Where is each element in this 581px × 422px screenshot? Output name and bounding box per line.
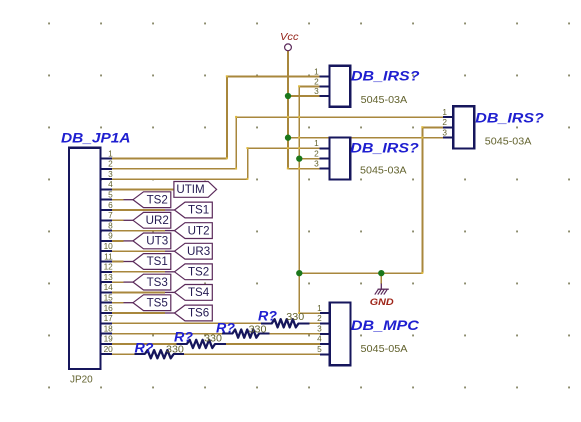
svg-text:DB_IRS?: DB_IRS? [350, 140, 419, 155]
wire resistor to U4 pin 4 [226, 343, 320, 345]
wire net UT2 [112, 230, 165, 232]
svg-text:15: 15 [104, 293, 114, 303]
net label TS2 [165, 264, 212, 280]
wire JP20 pin 20 to resistor [112, 353, 135, 355]
connector U1 DB_IRS? (top) [314, 66, 419, 107]
svg-text:2: 2 [314, 76, 319, 86]
svg-text:UR2: UR2 [146, 214, 169, 227]
net label TS1 [165, 202, 212, 218]
svg-text:10: 10 [104, 241, 114, 251]
wire JP20 pin 1 vertical [226, 77, 228, 159]
svg-text:R?: R? [174, 330, 193, 345]
svg-text:3: 3 [317, 323, 322, 333]
wire net TS2 [112, 199, 124, 201]
wire JP20 pin 18 to resistor [112, 333, 223, 335]
junction GND run [296, 270, 302, 276]
net label TS2 [124, 192, 171, 208]
wire JP20 pin 17 to resistor [112, 322, 262, 324]
net label TS1 [124, 254, 171, 270]
svg-text:Vcc: Vcc [280, 32, 299, 43]
power Vcc [280, 32, 299, 51]
junction VCC/U3.3 [285, 135, 291, 141]
svg-text:14: 14 [104, 282, 114, 292]
svg-text:1: 1 [314, 138, 319, 148]
svg-text:DB_JP1A: DB_JP1A [61, 130, 131, 145]
ground GND [370, 284, 394, 308]
wire net TS3 [112, 281, 124, 283]
wire JP20 pin 2 vertical [235, 117, 237, 169]
svg-text:3: 3 [314, 86, 319, 96]
svg-text:5: 5 [317, 344, 322, 354]
wire JP20 pin 2 horizontal [112, 168, 236, 170]
svg-text:JP20: JP20 [70, 375, 93, 386]
svg-text:5045-03A: 5045-03A [485, 136, 532, 147]
net label UT2 [165, 223, 212, 239]
resistor R? #2 330 [216, 320, 270, 337]
net label TS5 [124, 295, 171, 311]
wire VCC to U2 pin 3 [288, 168, 320, 170]
net label TS6 [165, 305, 212, 321]
connector U2 DB_IRS? (middle) [314, 138, 419, 180]
resistor R? #4 330 [134, 340, 184, 358]
svg-text:1: 1 [442, 107, 447, 117]
svg-text:R?: R? [135, 340, 154, 355]
net label TS3 [124, 274, 171, 290]
wire GND to U2 pin 2 [299, 158, 319, 160]
wire to U3 pin 1 [236, 116, 443, 118]
svg-text:4: 4 [108, 179, 113, 189]
wire GND stub to symbol [380, 273, 382, 284]
wire GND right vertical [422, 127, 424, 273]
wire GND to U4 pin 1 [299, 312, 320, 314]
svg-text:4: 4 [317, 334, 322, 344]
wire net UR3 [112, 250, 165, 252]
wire corner highlights [226, 75, 423, 314]
svg-text:5045-03A: 5045-03A [360, 165, 407, 176]
svg-text:TS4: TS4 [188, 286, 210, 299]
svg-text:DB_IRS?: DB_IRS? [475, 111, 544, 126]
svg-text:17: 17 [104, 313, 114, 323]
svg-text:16: 16 [104, 303, 114, 313]
wire VCC to U1 pin 3 [288, 95, 320, 97]
svg-text:UT3: UT3 [146, 235, 168, 248]
svg-text:330: 330 [286, 312, 304, 323]
wire JP20 pin 3 vertical [247, 148, 249, 179]
svg-text:3: 3 [314, 158, 319, 168]
resistor R? #3 330 [174, 330, 226, 348]
resistor R? #1 330 [258, 308, 310, 327]
svg-text:330: 330 [166, 344, 184, 355]
svg-text:TS6: TS6 [188, 307, 209, 320]
svg-text:13: 13 [104, 272, 114, 282]
svg-text:1: 1 [108, 148, 113, 158]
svg-text:3: 3 [442, 128, 447, 138]
wire JP20 pin 1 horizontal [112, 158, 227, 160]
net label UR2 [124, 212, 171, 228]
wire JP20 pin 19 to resistor [112, 343, 177, 345]
wire VCC to U3 pin 3 [288, 137, 443, 139]
svg-text:2: 2 [317, 313, 322, 323]
wire GND horizontal run [299, 272, 422, 274]
svg-text:2: 2 [108, 159, 113, 169]
wire net TS1 [112, 261, 124, 263]
svg-text:TS1: TS1 [188, 204, 209, 217]
wire resistor to U4 pin 3 [269, 333, 320, 335]
svg-text:TS2: TS2 [147, 193, 168, 206]
svg-text:11: 11 [104, 251, 113, 261]
net label UR3 [165, 243, 212, 259]
svg-text:9: 9 [108, 231, 113, 241]
svg-text:UT2: UT2 [188, 224, 210, 237]
svg-text:2: 2 [442, 117, 447, 127]
wire net TS1 [112, 209, 165, 211]
wire resistor to U4 pin 5 [183, 353, 319, 355]
net label UT3 [124, 233, 171, 249]
wire net UR2 [112, 219, 124, 221]
connector U3 DB_IRS? (right) [442, 106, 543, 148]
svg-text:R?: R? [258, 308, 277, 323]
svg-text:DB_MPC: DB_MPC [351, 318, 419, 333]
wire net TS6 [112, 312, 165, 314]
wire net UT3 [112, 240, 124, 242]
svg-text:18: 18 [104, 323, 114, 333]
wire GND to U3 pin 2 [423, 126, 444, 128]
wire GND vertical [298, 87, 300, 314]
wire to U1 pin 1 [227, 76, 320, 78]
wire net TS4 [112, 291, 165, 293]
svg-text:TS1: TS1 [147, 255, 168, 268]
wire net TS2 [112, 271, 165, 273]
svg-text:DB_IRS?: DB_IRS? [351, 69, 420, 84]
svg-text:1: 1 [314, 66, 319, 76]
wire to U2 pin 1 [248, 147, 320, 149]
svg-text:6: 6 [108, 200, 113, 210]
svg-text:330: 330 [204, 334, 222, 345]
wire GND to U1 pin 2 [299, 86, 319, 88]
junction VCC/U1.3 [285, 93, 291, 99]
svg-text:UTIM: UTIM [176, 183, 204, 196]
svg-text:5045-05A: 5045-05A [361, 344, 409, 355]
wire net TS5 [112, 302, 124, 304]
svg-text:12: 12 [104, 262, 114, 272]
svg-text:5045-03A: 5045-03A [361, 95, 408, 106]
svg-text:3: 3 [108, 169, 113, 179]
svg-text:TS5: TS5 [147, 296, 168, 309]
svg-text:330: 330 [249, 324, 267, 335]
junction GND symbol tap [378, 270, 384, 276]
svg-text:7: 7 [108, 210, 113, 220]
svg-text:TS2: TS2 [188, 266, 209, 279]
svg-text:5: 5 [108, 190, 113, 200]
svg-text:GND: GND [370, 297, 394, 308]
svg-text:UR3: UR3 [187, 245, 210, 258]
connector U4 DB_MPC [317, 302, 419, 365]
svg-text:1: 1 [317, 303, 322, 313]
wire resistor to U4 pin 2 [309, 322, 320, 324]
connector JP20 DB_JP1A [61, 130, 131, 385]
svg-text:TS3: TS3 [147, 276, 168, 289]
wire VCC vertical [287, 51, 289, 169]
wire JP20 pin 3 horizontal [112, 178, 248, 180]
junction GND/U2.2 [296, 155, 302, 161]
net label TS4 [165, 285, 212, 301]
svg-text:20: 20 [104, 344, 114, 354]
svg-text:8: 8 [108, 220, 113, 230]
svg-text:19: 19 [104, 334, 114, 344]
net label UTIM [174, 182, 217, 198]
wire net UTIM [112, 188, 217, 190]
svg-text:2: 2 [314, 148, 319, 158]
